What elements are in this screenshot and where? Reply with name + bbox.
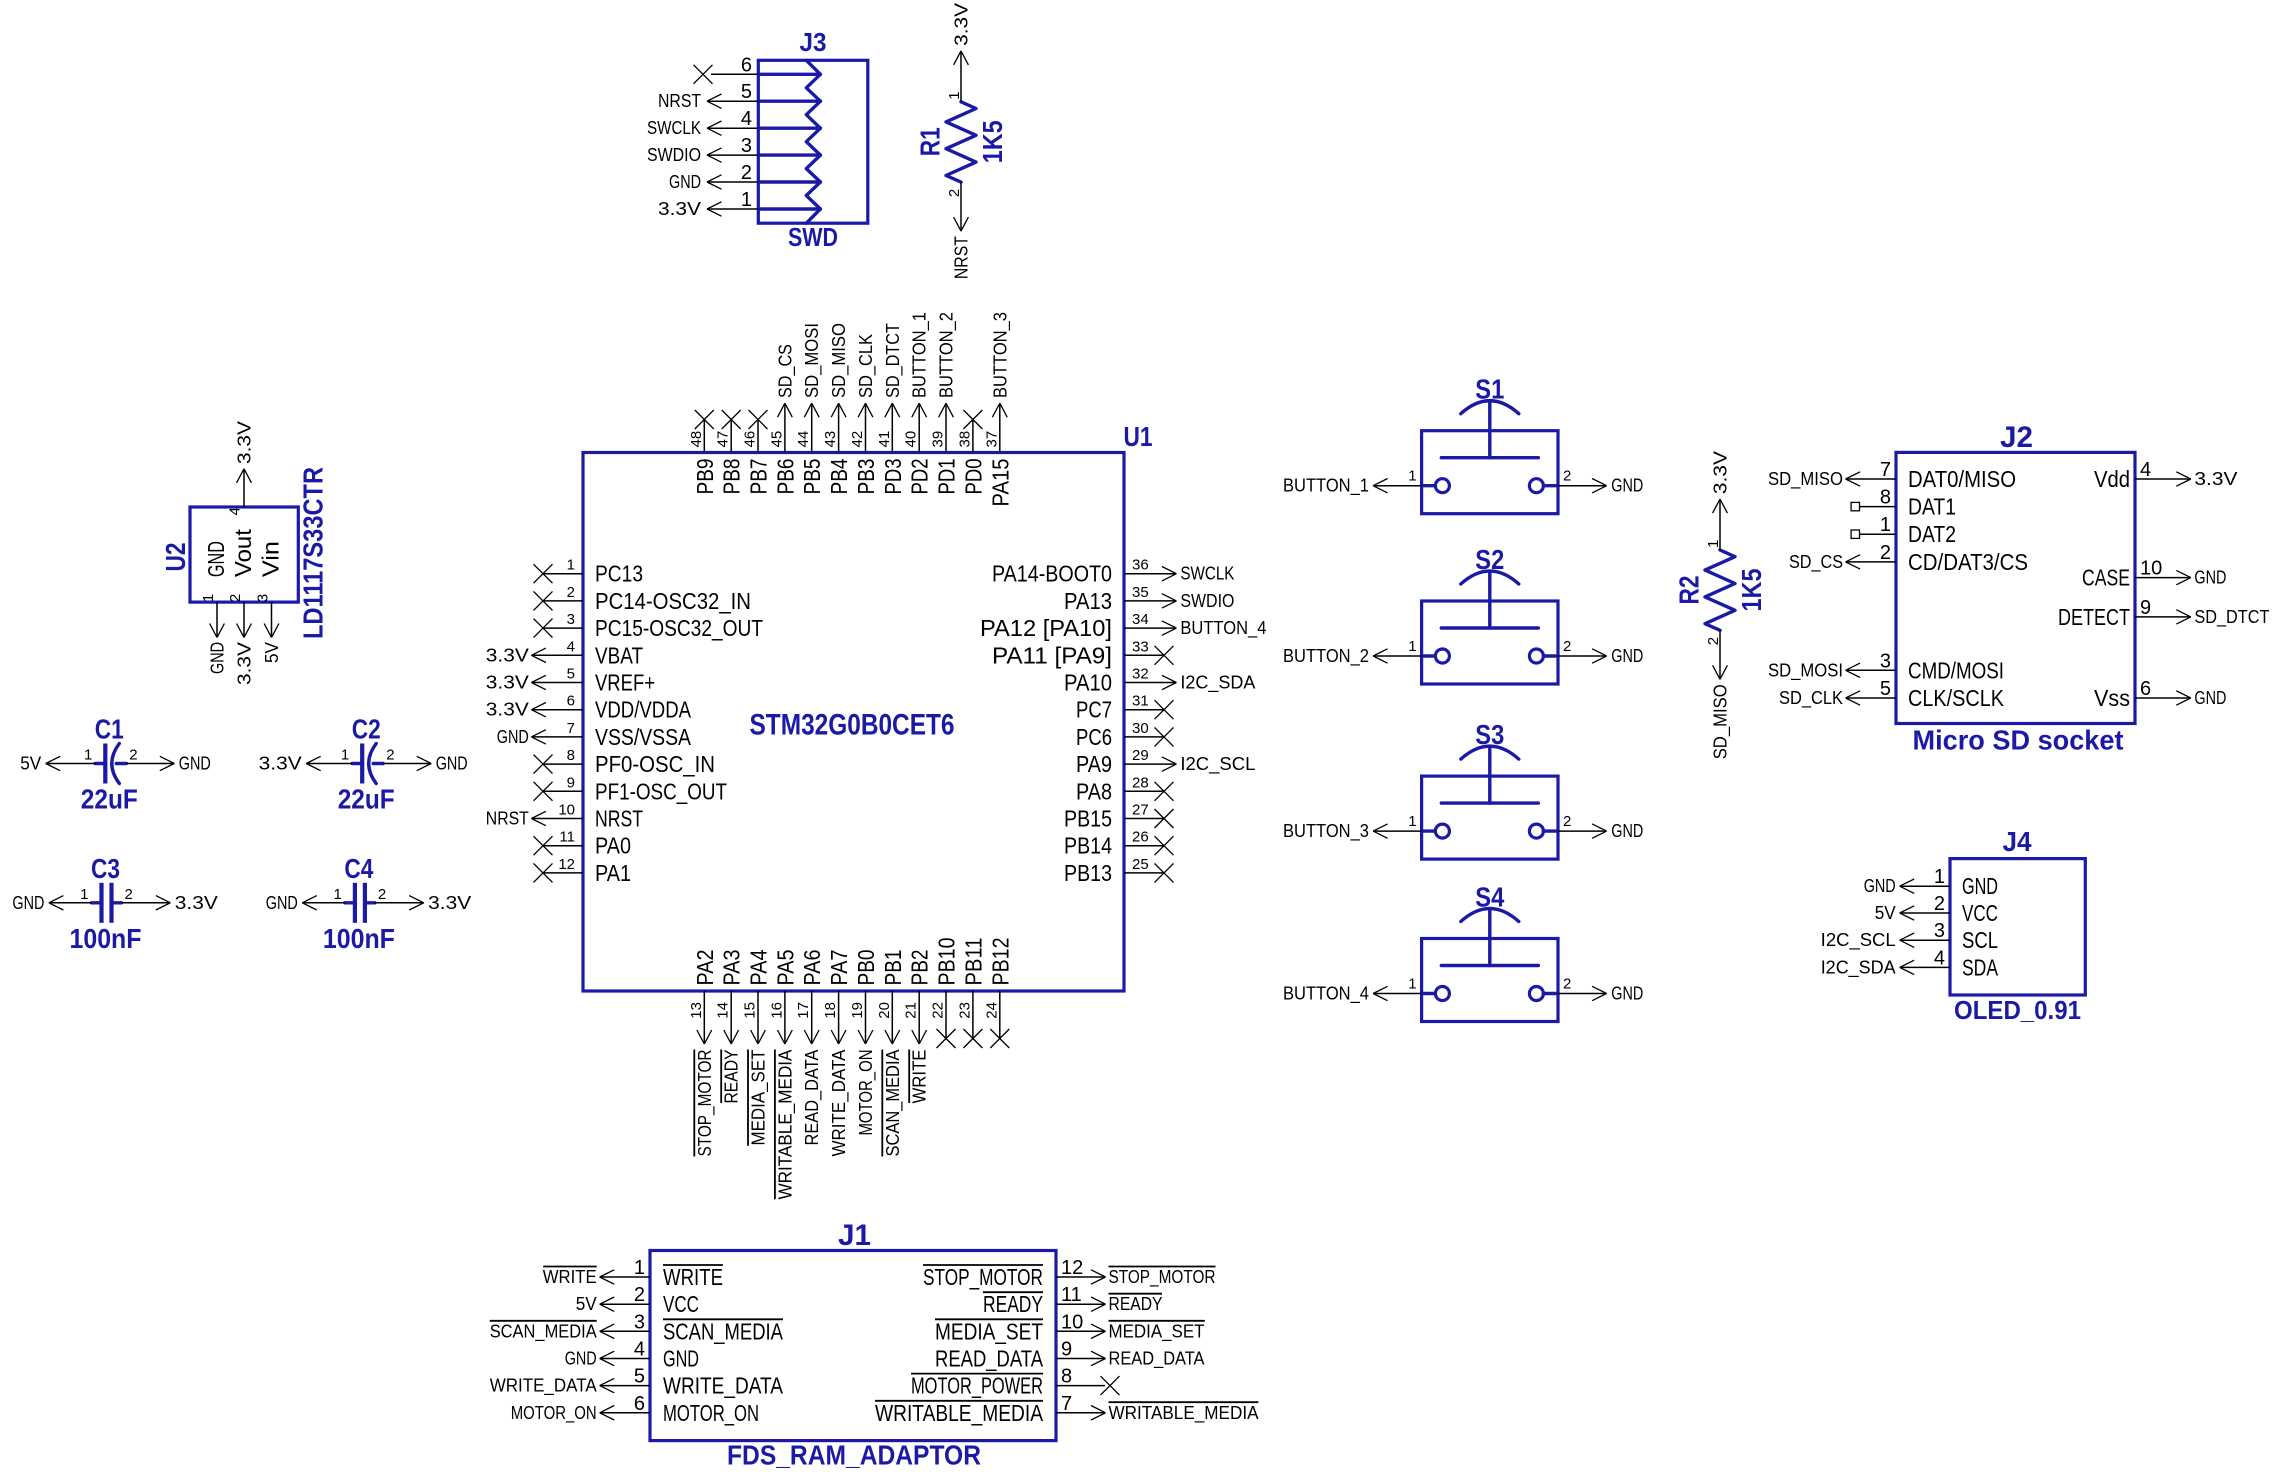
U1 pin 19 PB0 wire / net label MOTOR_ON: [849, 950, 879, 1136]
svg-text:26: 26: [1132, 829, 1149, 846]
svg-text:2: 2: [1563, 468, 1571, 485]
J1 pin 5 WRITE_DATA wire / net label WRITE_DATA: [490, 1366, 784, 1399]
svg-text:48: 48: [688, 431, 705, 448]
svg-text:LD1117S33CTR: LD1117S33CTR: [298, 467, 329, 639]
svg-text:I2C_SCL: I2C_SCL: [1180, 754, 1255, 775]
svg-text:PA6: PA6: [799, 950, 825, 986]
svg-text:3.3V: 3.3V: [2194, 469, 2237, 489]
svg-text:BUTTON_4: BUTTON_4: [1283, 984, 1369, 1005]
S2 pin 1 wire / net label BUTTON_2: [1283, 638, 1422, 667]
J2 pin 8 DAT1 wire: [1851, 487, 1956, 520]
svg-text:NRST: NRST: [595, 806, 643, 832]
svg-text:6: 6: [741, 54, 752, 76]
svg-text:PB4: PB4: [826, 458, 852, 494]
U1 pin 10 NRST wire / power label NRST: [486, 802, 643, 832]
svg-text:PC7: PC7: [1076, 697, 1112, 723]
C4 reference label: [344, 853, 373, 884]
J2 pin 5 CLK/SCLK wire / net label SD_CLK: [1779, 678, 2005, 711]
svg-text:STOP_MOTOR: STOP_MOTOR: [923, 1264, 1043, 1290]
svg-text:CASE: CASE: [2082, 565, 2130, 591]
svg-text:4: 4: [634, 1339, 645, 1361]
U1 pin 42 PB3 wire / net label SD_CLK: [849, 334, 879, 495]
svg-text:SD_MISO: SD_MISO: [1768, 469, 1843, 490]
svg-text:12: 12: [1061, 1257, 1083, 1279]
U2 value LD1117S33CTR: [298, 467, 329, 639]
U1 pin 11 PA0 wire no-connect: [534, 829, 632, 859]
svg-text:PC14-OSC32_IN: PC14-OSC32_IN: [595, 588, 751, 614]
svg-text:PB8: PB8: [719, 459, 745, 495]
svg-text:READ_DATA: READ_DATA: [1109, 1349, 1205, 1370]
U1 pin 12 PA1 wire no-connect: [534, 856, 632, 886]
R2 pin 2 wire / net label SD_MISO: [1705, 630, 1732, 759]
svg-text:I2C_SDA: I2C_SDA: [1821, 957, 1896, 978]
svg-text:PB13: PB13: [1064, 860, 1112, 886]
svg-text:4: 4: [1934, 947, 1945, 969]
svg-text:C2: C2: [352, 714, 381, 745]
svg-text:6: 6: [567, 693, 575, 710]
svg-text:2: 2: [1563, 813, 1571, 830]
U1 pin 36 PA14-BOOT0 wire / net label SWCLK: [992, 557, 1234, 587]
U1 pin 28 PA8 wire no-connect: [1076, 774, 1174, 804]
svg-text:SCAN_MEDIA: SCAN_MEDIA: [883, 1050, 904, 1157]
R1 pin 1 wire / power label 3.3V: [946, 3, 972, 102]
svg-text:SWCLK: SWCLK: [1180, 564, 1234, 584]
svg-text:BUTTON_1: BUTTON_1: [1283, 476, 1369, 497]
U1 pin 13 PA2 wire / net label STOP_MOTOR: [688, 950, 718, 1157]
svg-text:SCL: SCL: [1962, 927, 1998, 953]
svg-text:2: 2: [125, 886, 133, 903]
U1 pin 44 PB5 wire / net label SD_MOSI: [795, 323, 825, 495]
svg-text:3.3V: 3.3V: [952, 3, 972, 46]
svg-text:1: 1: [1408, 976, 1416, 993]
U1 pin 23 PB11 wire no-connect: [956, 938, 986, 1049]
svg-text:46: 46: [742, 431, 759, 448]
svg-text:4: 4: [2140, 459, 2151, 481]
svg-text:PB0: PB0: [853, 950, 879, 986]
svg-text:39: 39: [930, 431, 947, 448]
J1 pin 6 MOTOR_ON wire / net label MOTOR_ON: [511, 1393, 759, 1426]
U1 pin 34 PA12 [PA10] wire / net label BUTTON_4: [980, 611, 1266, 641]
U1 reference label: [1124, 421, 1153, 452]
svg-text:OLED_0.91: OLED_0.91: [1954, 995, 2081, 1025]
svg-text:PA11 [PA9]: PA11 [PA9]: [992, 642, 1112, 668]
U1 pin 2 PC14-OSC32_IN wire no-connect: [534, 584, 752, 614]
C4 pin 2 wire / power label 3.3V: [375, 886, 471, 913]
J1 pin 11 READY wire / net label READY: [983, 1284, 1163, 1317]
svg-text:STOP_MOTOR: STOP_MOTOR: [695, 1050, 716, 1157]
svg-text:1: 1: [946, 91, 963, 99]
U1 pin 24 PB12 wire no-connect: [983, 937, 1013, 1048]
svg-text:STOP_MOTOR: STOP_MOTOR: [1109, 1267, 1216, 1288]
svg-text:22: 22: [930, 1002, 947, 1019]
svg-text:7: 7: [1061, 1393, 1072, 1415]
J3 pin 3 wire / net label SWDIO: [647, 135, 758, 165]
svg-text:S2: S2: [1475, 544, 1504, 575]
svg-text:VBAT: VBAT: [595, 642, 643, 668]
J1 value FDS_RAM_ADAPTOR: [727, 1440, 981, 1471]
svg-text:24: 24: [983, 1002, 1000, 1019]
capacitor C4 body: [345, 883, 375, 923]
svg-text:PC13: PC13: [595, 561, 643, 587]
C2 value 22uF: [338, 784, 395, 815]
U1 pin 17 PA6 wire / net label READ_DATA: [795, 950, 825, 1146]
R1 value 1K5: [977, 120, 1008, 163]
svg-text:22uF: 22uF: [81, 784, 138, 815]
svg-text:PF1-OSC_OUT: PF1-OSC_OUT: [595, 778, 727, 804]
svg-text:DAT1: DAT1: [1908, 494, 1956, 520]
svg-text:4: 4: [567, 638, 575, 655]
svg-text:CLK/SCLK: CLK/SCLK: [1908, 685, 2005, 711]
push button S3 body: [1422, 746, 1558, 859]
svg-text:3.3V: 3.3V: [486, 673, 529, 693]
U1 pin 45 PB6 wire / net label SD_CS: [768, 344, 798, 495]
svg-text:PB3: PB3: [853, 459, 879, 495]
svg-text:I2C_SDA: I2C_SDA: [1180, 673, 1255, 694]
svg-text:PA15: PA15: [987, 459, 1013, 507]
svg-text:12: 12: [558, 856, 575, 873]
svg-text:32: 32: [1132, 666, 1149, 683]
svg-text:GND: GND: [1611, 821, 1643, 841]
svg-text:100nF: 100nF: [70, 923, 142, 954]
svg-text:I2C_SCL: I2C_SCL: [1821, 930, 1896, 951]
push button S1 body: [1422, 401, 1558, 514]
J1 pin 4 GND wire / net label GND: [565, 1339, 699, 1372]
svg-text:READ_DATA: READ_DATA: [802, 1050, 823, 1146]
capacitor C1 body: [95, 744, 126, 784]
C1 value 22uF: [81, 784, 138, 815]
svg-text:SWCLK: SWCLK: [647, 118, 701, 138]
svg-text:10: 10: [1061, 1311, 1083, 1333]
U2 reference label: [160, 543, 191, 572]
svg-text:100nF: 100nF: [323, 923, 395, 954]
svg-text:SWDIO: SWDIO: [647, 145, 701, 165]
svg-text:34: 34: [1132, 611, 1149, 628]
svg-text:1: 1: [80, 886, 88, 903]
J4 pin 4 SDA wire / net label I2C_SDA: [1821, 947, 1999, 980]
svg-text:DAT0/MISO: DAT0/MISO: [1908, 466, 2016, 492]
resistor R1 body: [946, 102, 976, 182]
S3 reference label: [1475, 719, 1504, 750]
svg-text:GND: GND: [663, 1346, 699, 1372]
svg-text:35: 35: [1132, 584, 1149, 601]
U1 pin 26 PB14 wire no-connect: [1064, 829, 1174, 859]
U1 pin 15 PA4 wire / net label MEDIA_SET: [742, 949, 772, 1145]
J4 pin 2 VCC wire / net label 5V: [1875, 893, 1998, 926]
svg-text:SWDIO: SWDIO: [1180, 591, 1234, 611]
C1 reference label: [95, 714, 124, 745]
svg-text:5: 5: [1880, 678, 1891, 700]
U1 pin 39 PD1 wire / net label BUTTON_2: [930, 312, 960, 495]
svg-text:FDS_RAM_ADAPTOR: FDS_RAM_ADAPTOR: [727, 1440, 981, 1471]
svg-text:PB11: PB11: [960, 938, 986, 986]
J3 pin 6 wire no-connect: [694, 54, 759, 84]
R1 pin 2 wire / net label NRST: [946, 182, 972, 279]
svg-text:GND: GND: [565, 1349, 597, 1369]
svg-text:36: 36: [1132, 557, 1149, 574]
svg-text:MOTOR_ON: MOTOR_ON: [663, 1400, 759, 1426]
svg-text:3: 3: [741, 135, 752, 157]
svg-text:SD_MISO: SD_MISO: [829, 323, 850, 398]
svg-text:S1: S1: [1475, 374, 1504, 405]
U1 pin 3 PC15-OSC32_OUT wire no-connect: [534, 611, 764, 641]
svg-text:PB2: PB2: [907, 950, 933, 986]
U1 pin 5 VREF+ wire / power label 3.3V: [486, 666, 655, 696]
svg-text:7: 7: [1880, 459, 1891, 481]
svg-text:PA9: PA9: [1076, 751, 1112, 777]
svg-text:PA4: PA4: [746, 949, 772, 985]
svg-text:47: 47: [715, 431, 732, 448]
U1 pin 1 PC13 wire no-connect: [534, 557, 644, 587]
svg-text:GND: GND: [208, 642, 228, 674]
U1 pin 46 PB7 wire no-connect: [742, 410, 772, 495]
U1 pin 41 PD3 wire / net label SD_DTCT: [876, 323, 906, 495]
connector J2 box: [1896, 452, 2135, 723]
svg-text:PC15-OSC32_OUT: PC15-OSC32_OUT: [595, 615, 763, 641]
svg-text:2: 2: [1705, 637, 1722, 645]
J3 pin 2 wire / net label GND: [669, 162, 758, 192]
svg-text:PA10: PA10: [1064, 670, 1112, 696]
J1 pin 7 WRITABLE_MEDIA wire / net label WRITABLE_MEDIA: [875, 1393, 1259, 1426]
svg-text:28: 28: [1132, 774, 1149, 791]
svg-text:CMD/MOSI: CMD/MOSI: [1908, 657, 2004, 683]
svg-text:WRITE_DATA: WRITE_DATA: [829, 1050, 850, 1157]
svg-text:WRITABLE_MEDIA: WRITABLE_MEDIA: [1109, 1403, 1259, 1424]
U1 pin 8 PF0-OSC_IN wire no-connect: [534, 747, 716, 777]
C3 value 100nF: [70, 923, 142, 954]
J1 pin 2 VCC wire / net label 5V: [576, 1284, 699, 1317]
svg-text:PA12 [PA10]: PA12 [PA10]: [980, 615, 1112, 641]
svg-text:READY: READY: [722, 1050, 742, 1104]
resistor R2 body: [1705, 550, 1735, 630]
J2 reference label: [2000, 421, 2033, 454]
svg-text:18: 18: [822, 1002, 839, 1019]
svg-text:J4: J4: [2003, 826, 2032, 857]
svg-text:PA8: PA8: [1076, 778, 1112, 804]
U1 pin 25 PB13 wire no-connect: [1064, 856, 1174, 886]
svg-text:Vin: Vin: [258, 541, 284, 577]
svg-text:30: 30: [1132, 720, 1149, 737]
svg-text:3.3V: 3.3V: [259, 754, 302, 774]
push button S4 body: [1422, 909, 1558, 1022]
C1 pin 1 wire / power label 5V: [20, 747, 95, 774]
svg-text:PA7: PA7: [826, 950, 852, 986]
svg-text:MEDIA_SET: MEDIA_SET: [1109, 1321, 1205, 1342]
J4 pin 3 SCL wire / net label I2C_SCL: [1821, 920, 1998, 953]
svg-text:1: 1: [1934, 866, 1945, 888]
svg-text:NRST: NRST: [486, 809, 529, 829]
svg-text:J2: J2: [2000, 421, 2033, 454]
svg-text:SD_DTCT: SD_DTCT: [883, 323, 904, 398]
svg-text:GND: GND: [203, 541, 229, 577]
svg-text:3: 3: [567, 611, 575, 628]
svg-text:5: 5: [567, 666, 575, 683]
svg-text:2: 2: [1563, 638, 1571, 655]
svg-text:BUTTON_3: BUTTON_3: [1283, 821, 1369, 842]
svg-text:WRITE_DATA: WRITE_DATA: [663, 1373, 784, 1399]
svg-text:3.3V: 3.3V: [175, 893, 218, 913]
capacitor C2 body: [352, 744, 383, 784]
svg-text:GND: GND: [1962, 873, 1998, 899]
svg-text:11: 11: [559, 829, 575, 846]
svg-text:14: 14: [715, 1002, 732, 1019]
svg-text:SCAN_MEDIA: SCAN_MEDIA: [490, 1321, 597, 1342]
svg-text:SCAN_MEDIA: SCAN_MEDIA: [663, 1318, 784, 1344]
svg-text:BUTTON_4: BUTTON_4: [1180, 618, 1266, 639]
svg-text:DETECT: DETECT: [2058, 604, 2130, 630]
C3 pin 1 wire / power label GND: [12, 886, 91, 913]
svg-text:1: 1: [341, 747, 349, 764]
connector J3 box: [758, 60, 868, 223]
svg-text:1: 1: [1408, 468, 1416, 485]
svg-text:PB7: PB7: [746, 459, 772, 495]
svg-text:PB12: PB12: [987, 937, 1013, 985]
svg-text:13: 13: [688, 1002, 705, 1019]
svg-text:NRST: NRST: [658, 91, 701, 111]
svg-text:MEDIA_SET: MEDIA_SET: [935, 1318, 1043, 1344]
svg-text:C4: C4: [344, 853, 373, 884]
svg-text:BUTTON_2: BUTTON_2: [937, 312, 958, 398]
svg-text:16: 16: [768, 1002, 785, 1019]
svg-text:WRITE: WRITE: [543, 1267, 597, 1287]
svg-text:3.3V: 3.3V: [486, 645, 529, 665]
S4 reference label: [1475, 882, 1504, 913]
svg-text:3: 3: [1880, 650, 1891, 672]
J4 reference label: [2003, 826, 2032, 857]
U2 pin 3 Vin wire / power label 5V: [255, 541, 284, 663]
svg-text:SD_CS: SD_CS: [1789, 552, 1843, 573]
svg-text:27: 27: [1132, 802, 1149, 819]
svg-text:GND: GND: [179, 754, 211, 774]
J2 pin 7 DAT0/MISO wire / net label SD_MISO: [1768, 459, 2016, 492]
svg-text:MOTOR_ON: MOTOR_ON: [511, 1403, 597, 1424]
svg-text:17: 17: [795, 1002, 812, 1019]
J2 pin 2 CD/DAT3/CS wire / net label SD_CS: [1789, 542, 2028, 575]
svg-text:3.3V: 3.3V: [235, 642, 255, 685]
J2 pin 10 CASE wire / net label GND: [2082, 558, 2226, 591]
svg-text:1K5: 1K5: [1736, 569, 1767, 612]
svg-text:PA5: PA5: [772, 950, 798, 986]
svg-text:GND: GND: [12, 893, 44, 913]
svg-text:C1: C1: [95, 714, 124, 745]
U1 pin 22 PB10 wire no-connect: [930, 938, 960, 1049]
J1 pin 3 SCAN_MEDIA wire / net label SCAN_MEDIA: [490, 1311, 784, 1344]
J1 pin 9 READ_DATA wire / net label READ_DATA: [935, 1339, 1205, 1372]
U1 value STM32G0B0CET6: [750, 709, 955, 742]
U2 pin 2 Vout wire / power label 3.3V: [227, 528, 256, 685]
svg-text:SD_CLK: SD_CLK: [856, 334, 877, 398]
svg-text:42: 42: [849, 431, 866, 448]
svg-text:8: 8: [1061, 1366, 1072, 1388]
svg-text:2: 2: [1880, 542, 1891, 564]
svg-text:45: 45: [768, 431, 785, 448]
C4 pin 1 wire / power label GND: [266, 886, 345, 913]
J1 pin 8 MOTOR_POWER wire no-connect: [911, 1366, 1120, 1399]
S3 pin 2 wire / power label GND: [1558, 813, 1643, 841]
svg-text:NRST: NRST: [952, 236, 972, 279]
svg-text:5V: 5V: [576, 1294, 597, 1314]
svg-text:MEDIA_SET: MEDIA_SET: [749, 1050, 770, 1146]
svg-text:READY: READY: [983, 1291, 1043, 1317]
svg-text:VCC: VCC: [663, 1291, 699, 1317]
svg-text:40: 40: [903, 431, 920, 448]
svg-text:38: 38: [956, 431, 973, 448]
R1 reference label: [915, 127, 946, 156]
svg-text:PA0: PA0: [595, 833, 631, 859]
svg-text:5V: 5V: [262, 642, 282, 663]
U1 pin 33 PA11 [PA9] wire no-connect: [992, 638, 1174, 668]
svg-text:BUTTON_2: BUTTON_2: [1283, 646, 1369, 667]
svg-text:VSS/VSSA: VSS/VSSA: [595, 724, 692, 750]
connector J4 box: [1950, 859, 2085, 995]
svg-text:1: 1: [1880, 514, 1891, 536]
svg-text:PA14-BOOT0: PA14-BOOT0: [992, 561, 1112, 587]
svg-text:1: 1: [741, 189, 752, 211]
J2 pin 3 CMD/MOSI wire / net label SD_MOSI: [1768, 650, 2004, 683]
svg-text:READY: READY: [1109, 1294, 1163, 1314]
svg-text:41: 41: [876, 431, 893, 448]
svg-text:READ_DATA: READ_DATA: [935, 1346, 1044, 1372]
svg-text:1: 1: [1705, 540, 1722, 548]
svg-text:C3: C3: [91, 853, 120, 884]
svg-text:PA3: PA3: [719, 950, 745, 986]
svg-text:4: 4: [226, 507, 243, 515]
S4 pin 2 wire / power label GND: [1558, 976, 1643, 1004]
svg-text:SWD: SWD: [788, 222, 838, 252]
svg-text:GND: GND: [2194, 688, 2226, 708]
svg-text:SD_DTCT: SD_DTCT: [2194, 607, 2269, 628]
svg-text:U2: U2: [160, 543, 191, 572]
svg-text:BUTTON_3: BUTTON_3: [990, 312, 1011, 398]
svg-text:BUTTON_1: BUTTON_1: [910, 312, 931, 398]
svg-text:3.3V: 3.3V: [1711, 451, 1731, 494]
U1 pin 6 VDD/VDDA wire / power label 3.3V: [486, 693, 692, 723]
svg-text:25: 25: [1132, 856, 1149, 873]
J2 pin 1 DAT2 wire: [1851, 514, 1956, 547]
svg-text:PA2: PA2: [692, 950, 718, 986]
svg-text:PA13: PA13: [1064, 588, 1112, 614]
J2 pin 9 DETECT wire / net label SD_DTCT: [2058, 597, 2269, 630]
svg-text:WRITE_DATA: WRITE_DATA: [490, 1376, 597, 1397]
svg-text:WRITABLE_MEDIA: WRITABLE_MEDIA: [875, 1400, 1044, 1426]
S2 reference label: [1475, 544, 1504, 575]
J2 pin 4 Vdd wire / net label 3.3V: [2094, 459, 2237, 492]
svg-text:PA1: PA1: [595, 860, 631, 886]
svg-text:Vout: Vout: [230, 528, 256, 577]
U1 pin 31 PC7 wire no-connect: [1076, 693, 1174, 723]
S1 reference label: [1475, 374, 1504, 405]
U1 pin 40 PD2 wire / net label BUTTON_1: [903, 312, 933, 495]
svg-text:3.3V: 3.3V: [658, 199, 701, 219]
svg-text:GND: GND: [2194, 568, 2226, 588]
J3 reference label: [800, 27, 827, 57]
svg-text:10: 10: [2140, 558, 2162, 580]
U1 pin 37 PA15 wire / net label BUTTON_3: [983, 312, 1013, 507]
svg-text:2: 2: [378, 886, 386, 903]
svg-text:2: 2: [1563, 976, 1571, 993]
svg-text:PB9: PB9: [692, 459, 718, 495]
J3 value SWD: [788, 222, 838, 252]
svg-text:1: 1: [334, 886, 342, 903]
svg-text:J3: J3: [800, 27, 827, 57]
U1 pin 7 VSS/VSSA wire / power label GND: [497, 720, 692, 750]
svg-text:11: 11: [1061, 1284, 1082, 1306]
svg-text:GND: GND: [436, 754, 468, 774]
U1 pin 29 PA9 wire / net label I2C_SCL: [1076, 747, 1255, 777]
svg-text:WRITABLE_MEDIA: WRITABLE_MEDIA: [775, 1050, 796, 1200]
U1 pin 21 PB2 wire / net label WRITE: [903, 950, 933, 1104]
svg-text:SD_CS: SD_CS: [775, 344, 796, 398]
svg-text:PF0-OSC_IN: PF0-OSC_IN: [595, 751, 715, 777]
